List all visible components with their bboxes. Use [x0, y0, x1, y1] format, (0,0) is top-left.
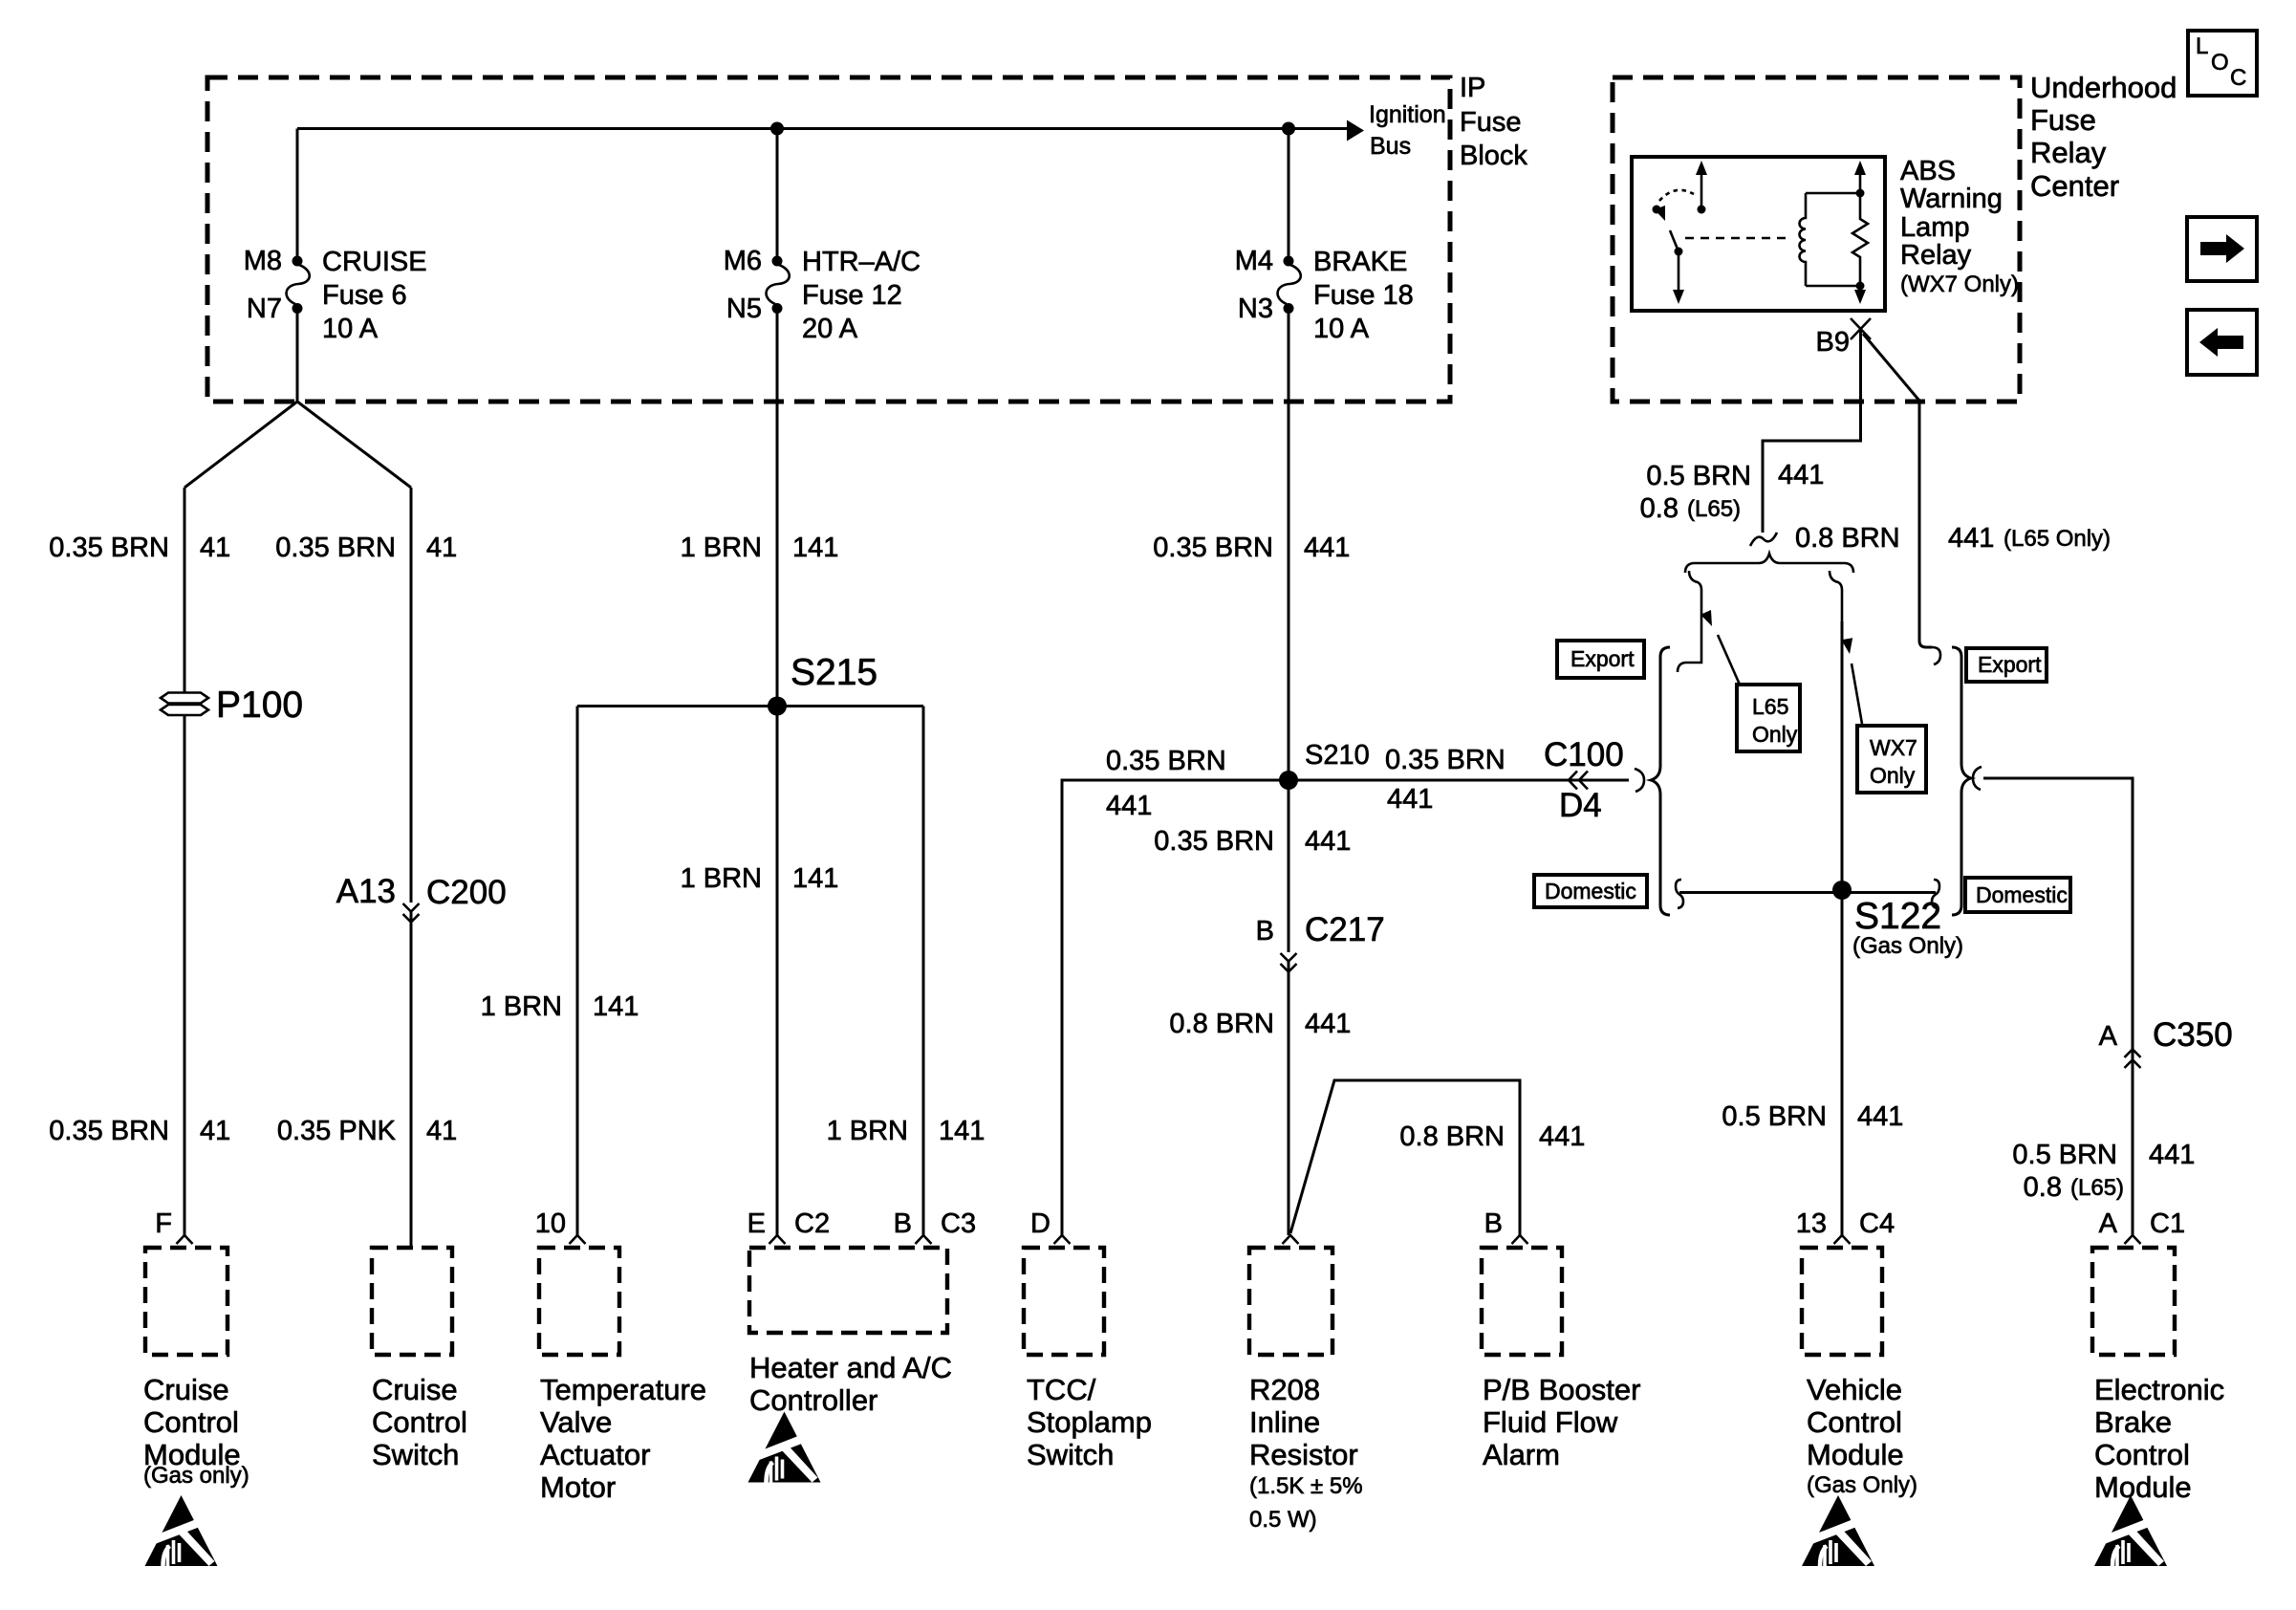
connector C217 chevrons: [1281, 953, 1297, 972]
svg-text:(L65 Only): (L65 Only): [2004, 526, 2111, 552]
svg-text:441: 441: [1778, 460, 1824, 490]
svg-text:Fuse 6: Fuse 6: [322, 280, 407, 311]
svg-text:141: 141: [593, 991, 639, 1022]
wire: S215 horizontal distribution: [577, 705, 923, 707]
svg-text:Module: Module: [1807, 1438, 1904, 1471]
wire: B9 diagonal branch (L65 only): [1863, 334, 1932, 647]
svg-text:N7: N7: [247, 294, 282, 324]
splice S215: [768, 697, 787, 716]
connector box: Temperature Valve Actuator Motor: [539, 1248, 619, 1355]
svg-text:20 A: 20 A: [802, 314, 858, 344]
svg-text:Only: Only: [1752, 722, 1798, 747]
harness start curl on EBCM wire: [1973, 767, 1982, 790]
terminal chevron at R208: [1283, 1235, 1299, 1244]
svg-text:41: 41: [426, 533, 457, 563]
wire: fork diagonal to cruise control switch branch: [297, 402, 411, 488]
svg-text:10: 10: [535, 1208, 566, 1239]
svg-text:Valve: Valve: [540, 1405, 612, 1439]
svg-text:0.35 PNK: 0.35 PNK: [277, 1116, 397, 1146]
curl at right end of S122 tie bar: [1932, 880, 1939, 908]
Export label box left: [1557, 641, 1644, 678]
wire: S215 right branch to heater A/C controller pin B: [922, 707, 925, 1236]
svg-text:Fuse 12: Fuse 12: [802, 280, 902, 311]
wire: branch from R208 terminal to P/B booster alarm: [1290, 1080, 1520, 1235]
fuse F2 HTR-A/C Fuse 12: [767, 256, 790, 315]
node: bus junction at HTR-A/C fuse: [770, 122, 784, 136]
curl at left end of S122 tie bar: [1676, 880, 1683, 908]
svg-text:Control: Control: [2094, 1438, 2190, 1471]
svg-text:441: 441: [1305, 1009, 1351, 1039]
svg-text:(Gas Only): (Gas Only): [1852, 933, 1963, 959]
svg-text:10 A: 10 A: [1313, 314, 1370, 344]
svg-text:WX7: WX7: [1870, 735, 1917, 760]
svg-text:L65: L65: [1752, 694, 1788, 719]
svg-text:Fuse: Fuse: [2030, 103, 2096, 137]
wire: 0.35 BRN 441 from BRAKE fuse to S210: [1288, 313, 1290, 780]
connector box: Cruise Control Switch: [372, 1248, 452, 1355]
svg-text:Fluid Flow: Fluid Flow: [1483, 1405, 1618, 1439]
svg-text:0.35 BRN: 0.35 BRN: [1154, 826, 1274, 857]
wire: S210 right to connector C100: [1289, 779, 1629, 782]
svg-text:0.8 BRN: 0.8 BRN: [1169, 1009, 1274, 1039]
svg-text:Electronic: Electronic: [2094, 1373, 2224, 1406]
terminal chevron at pin F: [177, 1235, 193, 1244]
svg-text:Heater and A/C: Heater and A/C: [749, 1351, 952, 1384]
wire: bus down to BRAKE fuse: [1288, 129, 1290, 257]
svg-text:Relay: Relay: [2030, 136, 2107, 169]
svg-text:10 A: 10 A: [322, 314, 379, 344]
IP Fuse Block dashed enclosure: [207, 77, 1450, 402]
svg-text:0.8 BRN: 0.8 BRN: [1399, 1121, 1505, 1152]
ESD symbol at Vehicle Control Module: [1802, 1495, 1874, 1566]
svg-text:Fuse: Fuse: [1460, 107, 1521, 138]
harness brace right: [1952, 647, 1971, 915]
terminal chevron at pin E: [769, 1235, 786, 1244]
svg-text:F: F: [155, 1208, 172, 1239]
forward navigation arrow box: [2187, 217, 2257, 281]
svg-text:Warning: Warning: [1900, 184, 2003, 214]
svg-text:1 BRN: 1 BRN: [827, 1116, 908, 1146]
svg-text:B: B: [894, 1208, 912, 1239]
svg-text:M8: M8: [244, 246, 282, 276]
svg-text:(1.5K ± 5%: (1.5K ± 5%: [1249, 1473, 1363, 1499]
svg-text:CRUISE: CRUISE: [322, 247, 427, 277]
relay switched output down arrow: [1678, 251, 1680, 290]
svg-text:ABS: ABS: [1900, 156, 1956, 186]
svg-text:0.35 BRN: 0.35 BRN: [49, 1116, 169, 1146]
svg-text:Relay: Relay: [1900, 240, 1972, 271]
connector box: Electronic Brake Control Module: [2092, 1248, 2175, 1355]
svg-text:TCC/: TCC/: [1027, 1373, 1096, 1406]
svg-text:HTR–A/C: HTR–A/C: [802, 247, 921, 277]
svg-text:441: 441: [1305, 826, 1351, 857]
back navigation arrow box: [2187, 310, 2257, 375]
svg-text:Ignition: Ignition: [1369, 101, 1446, 128]
wire: S215 left branch to temperature valve actuator motor: [576, 707, 579, 1236]
Domestic label box left: [1534, 875, 1647, 907]
svg-text:C4: C4: [1859, 1208, 1895, 1239]
Domestic label box right: [1965, 878, 2070, 912]
splice S210: [1279, 771, 1298, 790]
option callout box L65 Only: [1737, 685, 1800, 751]
svg-text:P100: P100: [216, 685, 303, 726]
svg-text:C: C: [2230, 65, 2246, 91]
wire: coil bottom to relay output: [1806, 285, 1860, 288]
wire: S210 left branch to TCC stoplamp switch: [1062, 780, 1289, 1235]
terminal B9 X mark: [1851, 318, 1871, 339]
terminal chevron at pin B of P/B booster: [1512, 1235, 1528, 1244]
svg-text:D: D: [1030, 1208, 1051, 1239]
svg-text:1 BRN: 1 BRN: [481, 991, 562, 1022]
wire: S210 down to C217: [1288, 780, 1290, 952]
svg-text:C350: C350: [2153, 1016, 2233, 1054]
terminal chevron at pin 10: [570, 1235, 586, 1244]
svg-text:Module: Module: [2094, 1470, 2192, 1504]
connector box: Cruise Control Module: [145, 1248, 227, 1355]
svg-text:N3: N3: [1238, 294, 1273, 324]
relay NC contact: [1653, 206, 1661, 214]
splice brace over option wires: [1685, 554, 1853, 573]
fuse F3 BRAKE Fuse 18: [1278, 256, 1301, 315]
arrow from WX7 Only box to wire: [1852, 664, 1862, 724]
svg-text:441: 441: [1857, 1101, 1903, 1132]
svg-text:B: B: [1256, 916, 1274, 946]
svg-text:Cruise: Cruise: [372, 1373, 458, 1406]
svg-text:Switch: Switch: [1027, 1438, 1114, 1471]
svg-text:Lamp: Lamp: [1900, 212, 1970, 243]
svg-text:C217: C217: [1305, 911, 1385, 948]
wire: WX7 option wire to S122: [1830, 571, 1842, 890]
svg-text:141: 141: [792, 533, 838, 563]
svg-text:Control: Control: [143, 1405, 239, 1439]
svg-text:Bus: Bus: [1370, 133, 1411, 160]
svg-text:Domestic: Domestic: [1976, 882, 2068, 907]
wire: 0.35 BRN 41 to C200: [410, 488, 413, 903]
svg-text:A13: A13: [336, 873, 396, 910]
svg-text:1 BRN: 1 BRN: [681, 863, 762, 894]
svg-text:L: L: [2196, 33, 2208, 59]
relay K1 ABS warning lamp relay box: [1632, 157, 1885, 311]
Underhood Fuse Relay Center dashed enclosure: [1613, 77, 2020, 402]
terminal chevron at pin D: [1054, 1235, 1071, 1244]
ESD symbol at Electronic Brake Control Module: [2094, 1495, 2167, 1566]
svg-text:Center: Center: [2030, 169, 2119, 203]
svg-text:Actuator: Actuator: [540, 1438, 650, 1471]
svg-text:S215: S215: [791, 652, 877, 693]
svg-text:(Gas only): (Gas only): [143, 1463, 249, 1489]
svg-text:41: 41: [200, 533, 230, 563]
svg-text:Inline: Inline: [1249, 1405, 1320, 1439]
svg-text:0.5 BRN: 0.5 BRN: [1722, 1101, 1827, 1132]
svg-text:S210: S210: [1305, 740, 1370, 771]
relay common terminal with up arrow: [1700, 174, 1703, 209]
svg-text:1 BRN: 1 BRN: [681, 533, 762, 563]
connector box: Heater and A/C Controller: [749, 1248, 947, 1333]
svg-text:13: 13: [1796, 1208, 1827, 1239]
wire: ignition bus: [297, 127, 1347, 130]
svg-text:R208: R208: [1249, 1373, 1320, 1406]
svg-text:0.5 W): 0.5 W): [1249, 1507, 1317, 1533]
svg-text:Vehicle: Vehicle: [1807, 1373, 1902, 1406]
svg-text:C3: C3: [941, 1208, 976, 1239]
LOC reference box: [2188, 31, 2257, 96]
fuse F1 CRUISE Fuse 6: [287, 256, 310, 315]
wire: B9 down with jog left: [1763, 329, 1861, 533]
svg-text:IP: IP: [1460, 73, 1485, 103]
connector box: R208 Inline Resistor: [1249, 1248, 1332, 1355]
svg-text:441: 441: [1539, 1121, 1585, 1152]
svg-text:N5: N5: [726, 294, 762, 324]
svg-text:0.35 BRN: 0.35 BRN: [1385, 745, 1505, 775]
svg-text:(L65): (L65): [2070, 1175, 2124, 1201]
wire: 1 BRN 141 from HTR-A/C fuse to S215: [776, 313, 779, 707]
connector box: Vehicle Control Module: [1802, 1248, 1882, 1355]
relay switch blade with arrowhead: [1670, 230, 1679, 251]
svg-text:Export: Export: [1570, 646, 1635, 671]
svg-text:0.5 BRN: 0.5 BRN: [2012, 1140, 2117, 1170]
resistor inside relay: [1852, 193, 1868, 290]
svg-text:441: 441: [1106, 791, 1152, 821]
svg-text:C100: C100: [1544, 736, 1624, 773]
svg-text:P/B Booster: P/B Booster: [1483, 1373, 1640, 1406]
wire: CRUISE fuse output down to fork: [296, 313, 299, 402]
wire: 0.35 PNK 41 from C200 to cruise control switch: [410, 911, 413, 1250]
svg-text:441: 441: [1948, 523, 1994, 554]
svg-text:Only: Only: [1870, 763, 1916, 788]
option callout box WX7 Only: [1857, 726, 1926, 793]
wire: bus down to CRUISE fuse: [296, 129, 299, 257]
ESD symbol at Cruise Control Module: [145, 1495, 218, 1566]
svg-text:B: B: [1484, 1208, 1503, 1239]
wire: export wire to electronic brake control module: [1983, 778, 2133, 1235]
svg-text:Motor: Motor: [540, 1470, 616, 1504]
connector C200 chevrons: [403, 903, 420, 923]
svg-text:C1: C1: [2150, 1208, 2185, 1239]
svg-text:A: A: [2099, 1021, 2118, 1052]
svg-text:Temperature: Temperature: [540, 1373, 706, 1406]
svg-text:441: 441: [1387, 784, 1433, 815]
ignition bus arrowhead: [1347, 120, 1364, 141]
svg-text:BRAKE: BRAKE: [1313, 247, 1407, 277]
wire: 0.5 BRN 441 from S122 to vehicle control module: [1841, 890, 1844, 1235]
connector C100 chevrons: [1569, 772, 1588, 790]
wire: L65 option stub: [1678, 571, 1701, 672]
grommet P100: [161, 693, 208, 716]
relay output down arrow: [1854, 290, 1866, 304]
svg-text:A: A: [2099, 1208, 2118, 1239]
svg-text:Resistor: Resistor: [1249, 1438, 1358, 1471]
svg-text:0.8 BRN: 0.8 BRN: [1795, 523, 1900, 554]
relay feed up arrow: [1859, 174, 1862, 193]
svg-text:0.8: 0.8: [1640, 493, 1679, 524]
wire: S215 center branch to heater A/C controller pin E: [776, 707, 779, 1236]
svg-text:Control: Control: [372, 1405, 467, 1439]
wire: 0.8 BRN 441 from C217 to R208: [1288, 961, 1290, 1235]
svg-text:0.35 BRN: 0.35 BRN: [275, 533, 396, 563]
svg-text:D4: D4: [1559, 787, 1602, 824]
connector box: TCC/Stoplamp Switch: [1024, 1248, 1104, 1355]
svg-text:Brake: Brake: [2094, 1405, 2172, 1439]
node: bus junction at BRAKE fuse: [1282, 122, 1295, 136]
svg-text:Fuse 18: Fuse 18: [1313, 280, 1414, 311]
arrow from L65 Only box to wire: [1718, 635, 1740, 685]
svg-text:Block: Block: [1460, 141, 1527, 171]
wire: bus down to HTR-A/C fuse: [776, 129, 779, 257]
svg-text:441: 441: [1304, 533, 1350, 563]
svg-text:(L65): (L65): [1687, 496, 1741, 522]
svg-text:(WX7 Only): (WX7 Only): [1900, 272, 2019, 297]
relay coil control dashed line: [1685, 237, 1786, 240]
terminal chevron at pin 13: [1834, 1235, 1851, 1244]
svg-text:Underhood: Underhood: [2030, 71, 2177, 104]
svg-text:441: 441: [2149, 1140, 2195, 1170]
svg-text:Alarm: Alarm: [1483, 1438, 1560, 1471]
wire: P100 down to cruise control module: [184, 715, 186, 1235]
svg-text:Cruise: Cruise: [143, 1373, 229, 1406]
svg-text:S122: S122: [1854, 896, 1941, 937]
terminal chevron at pin A: [2125, 1235, 2141, 1244]
svg-text:M6: M6: [724, 246, 762, 276]
connector box: P/B Booster Fluid Flow Alarm: [1482, 1248, 1562, 1355]
harness brace left (domestic/export split): [1651, 647, 1670, 915]
svg-text:O: O: [2211, 50, 2229, 76]
connector C350 chevrons: [2125, 1050, 2141, 1069]
svg-text:C2: C2: [794, 1208, 830, 1239]
svg-text:0.5 BRN: 0.5 BRN: [1646, 461, 1751, 491]
relay armature travel dashed arc: [1659, 190, 1694, 201]
svg-text:0.35 BRN: 0.35 BRN: [1153, 533, 1273, 563]
relay coil: [1800, 193, 1807, 286]
svg-text:Stoplamp: Stoplamp: [1027, 1405, 1152, 1439]
svg-text:B9: B9: [1816, 327, 1850, 358]
Export label box right: [1966, 648, 2047, 682]
svg-text:(Gas Only): (Gas Only): [1807, 1472, 1917, 1498]
wire: S122 tie bar: [1679, 891, 1936, 894]
svg-text:Export: Export: [1978, 652, 2042, 677]
svg-text:141: 141: [792, 863, 838, 894]
ESD symbol at Heater and A/C Controller: [748, 1412, 821, 1483]
harness end curl at D4: [1635, 769, 1644, 792]
svg-text:41: 41: [426, 1116, 457, 1146]
terminal chevron at pin B: [916, 1235, 932, 1244]
svg-text:C200: C200: [426, 874, 507, 911]
svg-text:0.8: 0.8: [2024, 1172, 2062, 1203]
wire: fork diagonal to cruise control module branch: [184, 402, 297, 488]
splice S122: [1832, 881, 1852, 900]
harness end curl on L65 branch: [1932, 647, 1940, 664]
svg-text:Switch: Switch: [372, 1438, 459, 1471]
svg-text:0.35 BRN: 0.35 BRN: [1106, 746, 1226, 776]
svg-text:E: E: [747, 1208, 766, 1239]
svg-text:Domestic: Domestic: [1545, 879, 1636, 903]
svg-text:0.35 BRN: 0.35 BRN: [49, 533, 169, 563]
wire: 0.35 BRN 41 to cruise control module: [184, 488, 186, 692]
svg-text:41: 41: [200, 1116, 230, 1146]
wire: coil top to relay feed: [1806, 192, 1860, 195]
svg-text:Controller: Controller: [749, 1383, 877, 1417]
svg-text:M4: M4: [1235, 246, 1273, 276]
svg-text:141: 141: [939, 1116, 985, 1146]
wire gauge change squiggle: [1750, 533, 1777, 546]
svg-text:Control: Control: [1807, 1405, 1902, 1439]
